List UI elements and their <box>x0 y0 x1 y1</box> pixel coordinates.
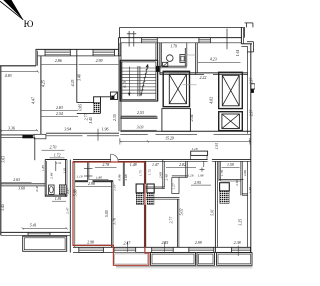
svg-text:5.00: 5.00 <box>74 189 78 196</box>
svg-text:1.27: 1.27 <box>171 183 175 189</box>
svg-text:2.47: 2.47 <box>66 188 70 194</box>
svg-text:1.19: 1.19 <box>76 174 82 178</box>
wall top B inner <box>121 42 242 44</box>
wall under stairs <box>120 116 157 118</box>
window B1 <box>78 247 80 252</box>
svg-text:3.77: 3.77 <box>169 216 173 224</box>
balcony red <box>115 254 148 264</box>
wall toilet bottom <box>160 65 187 67</box>
wall apts top outer <box>73 159 111 161</box>
svg-text:6.19: 6.19 <box>123 81 127 87</box>
tick apt wall <box>203 162 205 168</box>
wall right jog <box>241 43 252 45</box>
wall left apt bottom1 <box>1 134 46 136</box>
svg-text:2.83: 2.83 <box>56 106 63 110</box>
cross mark mid <box>200 169 205 171</box>
door left apt <box>34 134 46 139</box>
vent right white <box>220 183 230 191</box>
window B5 <box>231 247 233 252</box>
wall red hall divider <box>87 161 89 180</box>
wall right inner <box>247 46 249 133</box>
svg-text:1.72: 1.72 <box>54 153 61 157</box>
wall apt divider right <box>214 161 216 252</box>
svg-text:1.47: 1.47 <box>152 163 160 167</box>
svg-text:3.94: 3.94 <box>64 127 71 131</box>
wall toilet left <box>159 43 161 75</box>
parapet notch <box>245 22 253 24</box>
svg-text:2.66: 2.66 <box>243 170 247 176</box>
svg-text:2.70: 2.70 <box>49 146 56 150</box>
svg-text:2.54: 2.54 <box>56 112 63 116</box>
shower box <box>163 62 168 66</box>
svg-text:1.81: 1.81 <box>55 197 62 201</box>
svg-text:2.22: 2.22 <box>199 76 206 80</box>
svg-text:1.35: 1.35 <box>63 168 67 174</box>
balcony D <box>217 253 253 266</box>
wall right apt mid <box>242 193 247 195</box>
svg-text:1.76: 1.76 <box>220 170 224 176</box>
wc fixture <box>180 55 185 63</box>
svg-text:1.51: 1.51 <box>56 161 62 165</box>
window B4 <box>188 247 190 252</box>
shaft mid grid <box>147 193 154 205</box>
sink circle <box>167 55 174 62</box>
svg-text:3.03: 3.03 <box>137 126 144 130</box>
svg-text:1.45: 1.45 <box>89 117 93 124</box>
wall top A outer <box>36 48 120 50</box>
wall stair right <box>157 43 159 101</box>
svg-text:3.36: 3.36 <box>8 126 15 130</box>
door arc red apt <box>111 154 119 162</box>
wall left apt mid <box>1 183 45 185</box>
svg-text:3.40: 3.40 <box>78 74 82 81</box>
shaft red grid <box>136 193 144 205</box>
svg-text:2.38: 2.38 <box>234 241 241 245</box>
kitchen mid wall <box>146 197 180 199</box>
wall stair left <box>118 43 120 131</box>
svg-text:3.63: 3.63 <box>2 156 6 163</box>
wall top-left <box>0 65 36 67</box>
wall left apt bottom2 <box>46 132 119 134</box>
wall room1 right <box>40 56 42 137</box>
svg-text:4.83: 4.83 <box>5 74 12 78</box>
svg-text:5.41: 5.41 <box>30 223 37 227</box>
svg-text:4.82: 4.82 <box>210 97 214 104</box>
section mark 1 <box>128 31 130 47</box>
leader elevator <box>182 84 196 86</box>
leader toilet <box>185 54 196 56</box>
svg-text:1.61: 1.61 <box>236 49 240 56</box>
north arrow <box>3 0 23 20</box>
svg-text:2.98: 2.98 <box>87 241 94 245</box>
svg-text:2.35: 2.35 <box>113 114 117 121</box>
window W1 <box>44 49 46 56</box>
svg-text:2.37: 2.37 <box>250 78 254 84</box>
section mark 2 <box>226 29 228 50</box>
parapet line <box>120 26 245 28</box>
wall vestibule left <box>195 43 197 75</box>
bath mid walls <box>162 160 164 189</box>
wall left outer <box>0 66 2 236</box>
room mid divider <box>176 199 178 247</box>
wall rooms divider <box>76 49 78 102</box>
stairwell inner <box>122 62 156 100</box>
svg-text:4.23: 4.23 <box>210 58 217 62</box>
wall x35 <box>34 137 36 160</box>
window B2 <box>113 247 115 252</box>
wall lobby top <box>160 72 248 74</box>
hall mid bottom <box>172 175 188 177</box>
machine room <box>162 109 191 132</box>
wall red room right <box>111 180 113 247</box>
svg-text:1.48: 1.48 <box>130 163 137 167</box>
wall hall bottom <box>77 112 101 114</box>
svg-text:2.53: 2.53 <box>137 111 144 115</box>
vent shaft hall <box>94 97 101 103</box>
balcony shadows <box>116 266 253 268</box>
stair stringer <box>137 66 139 96</box>
vent grid bath L <box>59 185 66 195</box>
window W3 <box>141 38 143 43</box>
wall red left <box>69 160 71 253</box>
svg-text:4.47: 4.47 <box>31 96 35 104</box>
svg-text:3.45: 3.45 <box>1 204 5 211</box>
svg-text:4.25: 4.25 <box>71 80 75 87</box>
wall core bottom <box>120 130 251 132</box>
svg-text:5.00: 5.00 <box>105 210 109 217</box>
stair treads <box>122 67 156 69</box>
svg-text:0.86: 0.86 <box>118 174 122 180</box>
wall right upper <box>240 27 242 43</box>
svg-text:2.99: 2.99 <box>96 59 103 63</box>
svg-text:2.37: 2.37 <box>250 110 254 116</box>
svg-text:15.29: 15.29 <box>165 136 174 140</box>
stair arrow up <box>141 66 148 96</box>
window B3 <box>151 247 153 252</box>
wall step mid <box>118 38 120 56</box>
svg-text:4.25: 4.25 <box>41 80 45 87</box>
svg-text:3.76: 3.76 <box>112 218 116 225</box>
garbage chute <box>111 92 118 100</box>
stairwell outer <box>120 60 157 101</box>
svg-text:2.47: 2.47 <box>66 207 70 213</box>
elevator U1 <box>163 71 189 106</box>
door bump right <box>251 84 255 89</box>
svg-text:2.48: 2.48 <box>164 174 168 180</box>
svg-text:3.25: 3.25 <box>238 219 242 226</box>
window W4 <box>198 38 200 43</box>
svg-text:1.49: 1.49 <box>248 187 252 193</box>
svg-text:1.75: 1.75 <box>139 170 143 176</box>
wall left apt bottom <box>1 231 71 233</box>
bathroom L walls <box>44 160 46 197</box>
svg-text:2.86: 2.86 <box>55 59 62 63</box>
wall hall top <box>77 102 94 104</box>
wall red mid thick <box>75 180 88 182</box>
svg-text:1.18: 1.18 <box>191 147 197 151</box>
column stair <box>156 66 159 72</box>
balcony C <box>197 253 215 266</box>
svg-text:2.68: 2.68 <box>124 174 128 180</box>
vent right grid <box>220 191 230 204</box>
wall top B outer <box>119 37 242 39</box>
svg-text:2.68: 2.68 <box>158 172 162 178</box>
wall apts top inner <box>73 160 111 162</box>
window W2 <box>92 49 94 56</box>
svg-text:1.91: 1.91 <box>215 143 219 149</box>
wall red kitchen divider <box>122 161 124 186</box>
svg-text:1.08: 1.08 <box>198 173 204 177</box>
svg-text:1.80: 1.80 <box>96 176 102 180</box>
shaft mid white <box>147 184 154 193</box>
svg-text:1.96: 1.96 <box>102 127 109 131</box>
balcony left apt <box>23 236 67 251</box>
svg-text:2.98: 2.98 <box>88 182 95 186</box>
svg-text:3.60: 3.60 <box>18 187 25 191</box>
wall top A inner <box>38 55 121 57</box>
svg-text:Ю: Ю <box>24 20 34 30</box>
window left apt bottom <box>27 232 29 235</box>
svg-text:2.99: 2.99 <box>195 241 202 245</box>
wall bottom inner <box>73 246 251 248</box>
svg-text:2.67: 2.67 <box>235 179 239 185</box>
balcony B <box>151 253 196 266</box>
svg-text:1.79: 1.79 <box>170 44 177 48</box>
closet mid <box>171 177 173 193</box>
elevator U3 <box>219 112 243 131</box>
vent black wall <box>22 135 33 139</box>
red apartment outline <box>73 162 149 265</box>
shaft red white <box>136 184 144 193</box>
entry porch top-right <box>247 41 254 43</box>
svg-text:1.72: 1.72 <box>147 169 151 175</box>
svg-text:0.85: 0.85 <box>79 104 83 111</box>
svg-text:1.59: 1.59 <box>227 163 234 167</box>
svg-text:5.01: 5.01 <box>211 209 215 215</box>
wc left apt <box>49 185 55 194</box>
svg-text:1.85: 1.85 <box>41 165 45 171</box>
svg-text:1.26: 1.26 <box>188 173 194 177</box>
elevator U2 <box>219 72 243 108</box>
wall red right <box>143 161 145 184</box>
svg-text:2.64: 2.64 <box>49 172 53 178</box>
svg-text:2.78: 2.78 <box>102 163 109 167</box>
svg-text:2.04: 2.04 <box>190 114 194 121</box>
bath right walls <box>218 161 220 181</box>
wall right outer <box>250 44 252 253</box>
svg-text:5.02: 5.02 <box>179 209 183 216</box>
wall mid kitchen east <box>185 161 187 177</box>
wall bottom outer <box>73 252 113 254</box>
svg-text:2.95: 2.95 <box>194 181 201 185</box>
svg-text:2.45: 2.45 <box>161 241 168 245</box>
svg-text:2.82: 2.82 <box>179 163 186 167</box>
wall step left <box>35 49 37 66</box>
svg-text:2.63: 2.63 <box>13 178 20 182</box>
svg-text:1.77: 1.77 <box>113 184 117 190</box>
wall toilet right <box>184 48 186 66</box>
wall hall mid <box>101 96 111 98</box>
stair arrow down <box>128 67 130 95</box>
